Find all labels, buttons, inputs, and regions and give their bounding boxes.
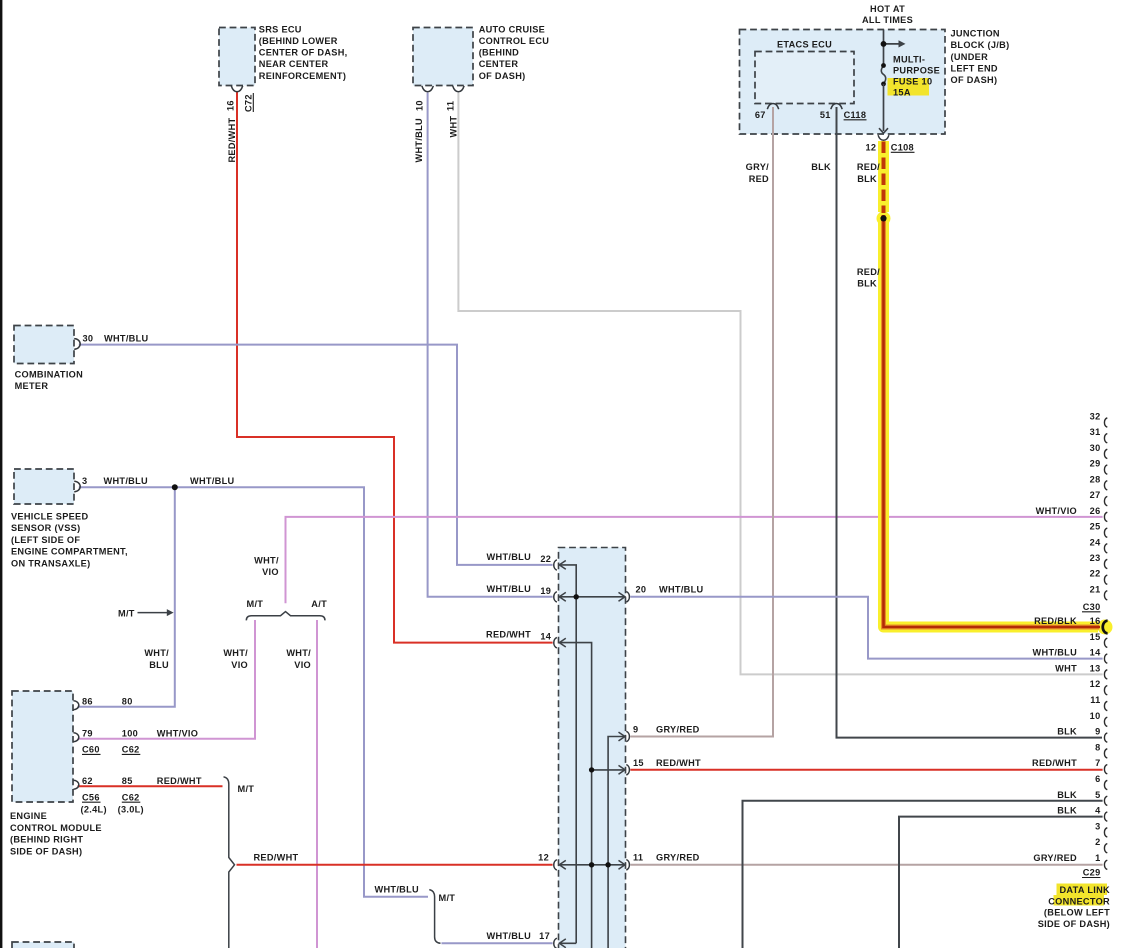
VSS box border — [14, 469, 74, 504]
wire WHT/BLU M/T segment to center connector pin17 — [442, 942, 553, 944]
svg-text:WHT/: WHT/ — [286, 648, 311, 658]
svg-text:AUTO CRUISE: AUTO CRUISE — [479, 24, 545, 34]
svg-text:14: 14 — [540, 632, 551, 642]
wire BLK from bottom to C29 pin4 — [899, 817, 1103, 948]
wire WHT/BLU branch to ECM pin86 — [78, 487, 175, 707]
svg-text:VIO: VIO — [262, 567, 279, 577]
svg-text:RED/WHT: RED/WHT — [656, 758, 701, 768]
svg-text:WHT/BLU: WHT/BLU — [104, 476, 149, 486]
svg-text:9: 9 — [1095, 727, 1100, 737]
svg-text:RED/WHT: RED/WHT — [254, 853, 299, 863]
wire RED/WHT ECM pin62 to M/T brace — [78, 785, 223, 787]
svg-text:M/T: M/T — [118, 608, 135, 618]
arrow into pin20 — [619, 592, 626, 601]
svg-text:26: 26 — [1090, 506, 1101, 516]
ECM box border — [12, 691, 73, 802]
svg-text:WHT/: WHT/ — [223, 648, 248, 658]
svg-text:M/T: M/T — [439, 893, 456, 903]
svg-text:SIDE OF DASH): SIDE OF DASH) — [10, 846, 82, 856]
svg-text:BLU: BLU — [149, 660, 169, 670]
arrow into pin15 — [619, 765, 626, 774]
socket C29 pin4 — [1104, 812, 1107, 821]
svg-text:(BEHIND: (BEHIND — [479, 48, 519, 58]
svg-text:27: 27 — [1090, 490, 1101, 500]
svg-text:5: 5 — [1095, 790, 1100, 800]
arrows at center connector pins — [559, 561, 625, 948]
svg-text:85: 85 — [122, 776, 133, 786]
combination meter box border — [14, 326, 74, 364]
junction block J/B fill — [740, 30, 946, 135]
socket C29 pin15 — [1104, 638, 1107, 647]
svg-text:FUSE 10: FUSE 10 — [893, 76, 932, 86]
socket C108 pin12 — [878, 135, 889, 140]
svg-text:C30: C30 — [1083, 602, 1101, 612]
svg-text:HOT AT: HOT AT — [870, 4, 905, 14]
svg-text:(BEHIND LOWER: (BEHIND LOWER — [259, 36, 338, 46]
svg-text:MULTI-: MULTI- — [893, 54, 925, 64]
wire WHT/VIO ECM pin79 to M/T brace — [78, 620, 256, 739]
svg-text:10: 10 — [1090, 711, 1101, 721]
socket center connector pin15 — [626, 765, 629, 775]
svg-text:11: 11 — [633, 853, 643, 863]
arrow into pin19 — [559, 592, 566, 601]
svg-text:WHT/VIO: WHT/VIO — [1036, 506, 1077, 516]
socket C29 pin16 bold — [1103, 621, 1108, 634]
internal wire pin14 down to pin12 line — [560, 643, 592, 865]
socket C30 pin29 — [1104, 465, 1107, 474]
ETACS ECU inner box fill — [755, 52, 854, 104]
svg-text:OF DASH): OF DASH) — [479, 71, 526, 81]
socket C29 pin12 — [1104, 686, 1107, 695]
svg-text:WHT/BLU: WHT/BLU — [1033, 648, 1078, 658]
svg-text:COMBINATION: COMBINATION — [15, 370, 84, 380]
highlight ring at junction dot — [877, 211, 891, 225]
svg-text:SIDE OF DASH): SIDE OF DASH) — [1038, 919, 1110, 929]
svg-text:CENTER: CENTER — [479, 59, 519, 69]
junction dot pin9/11 net — [605, 862, 610, 867]
socket cruise pin10 — [422, 86, 433, 92]
svg-text:6: 6 — [1095, 774, 1100, 784]
svg-text:24: 24 — [1090, 537, 1101, 547]
socket C29 pin11 — [1104, 701, 1107, 710]
socket center connector pin22 — [554, 560, 557, 570]
svg-text:CONTROL ECU: CONTROL ECU — [479, 36, 550, 46]
socket C30 pin27 — [1104, 496, 1107, 505]
svg-text:SRS ECU: SRS ECU — [259, 24, 302, 34]
center in-line connector box border — [559, 548, 626, 948]
arrow into pin9 — [619, 732, 626, 741]
svg-text:REINFORCEMENT): REINFORCEMENT) — [259, 71, 346, 81]
junction dot pin19/22 net — [574, 594, 579, 599]
svg-text:80: 80 — [122, 696, 133, 706]
svg-text:WHT/BLU: WHT/BLU — [487, 931, 532, 941]
fuse 10 element — [881, 66, 885, 84]
svg-text:13: 13 — [1090, 663, 1101, 673]
svg-text:29: 29 — [1090, 459, 1101, 469]
svg-text:BLK: BLK — [1057, 727, 1077, 737]
socket center connector pin14 — [554, 638, 557, 648]
svg-text:A/T: A/T — [311, 599, 327, 609]
svg-text:RED/WHT: RED/WHT — [486, 630, 531, 640]
svg-text:3: 3 — [1095, 821, 1100, 831]
RED/BLK solid wire core — [884, 215, 1101, 627]
arrow into pin17 — [559, 939, 566, 948]
svg-text:4: 4 — [1095, 806, 1101, 816]
RED/BLK dashed wire segment C108 down — [882, 142, 886, 214]
svg-text:C56: C56 — [82, 792, 100, 802]
svg-text:WHT/BLU: WHT/BLU — [659, 585, 704, 595]
svg-text:ENGINE COMPARTMENT,: ENGINE COMPARTMENT, — [11, 547, 128, 557]
svg-text:ALL TIMES: ALL TIMES — [862, 15, 913, 25]
svg-text:RED/WHT: RED/WHT — [227, 117, 237, 162]
svg-text:C62: C62 — [122, 745, 140, 755]
svg-text:WHT: WHT — [1055, 663, 1077, 673]
svg-text:C60: C60 — [82, 745, 100, 755]
socket C30 pin22 — [1104, 575, 1107, 584]
svg-text:12: 12 — [538, 853, 549, 863]
svg-text:WHT/VIO: WHT/VIO — [157, 728, 198, 738]
wire GRY/RED ETACS pin67 to center connector pin9 — [630, 107, 773, 737]
internal wire pin12 to pin11 — [560, 864, 625, 866]
svg-text:C118: C118 — [844, 110, 867, 120]
socket C29 pin2 — [1104, 844, 1107, 853]
svg-text:8: 8 — [1095, 742, 1100, 752]
wire RED/WHT M/T segment to center connector pin12 — [237, 864, 553, 866]
wire GRY/RED center connector pin11 to C29 pin1 — [630, 864, 1102, 866]
highlight DATA LINK — [1057, 884, 1108, 896]
svg-text:15A: 15A — [893, 87, 911, 97]
socket VSS pin3 — [74, 481, 80, 492]
svg-text:28: 28 — [1090, 474, 1101, 484]
svg-text:86: 86 — [82, 696, 93, 706]
svg-text:23: 23 — [1090, 553, 1101, 563]
svg-text:VEHICLE SPEED: VEHICLE SPEED — [11, 512, 88, 522]
svg-text:16: 16 — [1090, 616, 1101, 626]
AUTO CRUISE ECU box fill — [413, 28, 473, 86]
socket center connector pin9 — [626, 731, 629, 741]
svg-text:67: 67 — [755, 110, 766, 120]
highlight band solid segment — [884, 218, 1099, 627]
svg-text:M/T: M/T — [247, 599, 264, 609]
wire WHT/BLU VSS pin3 junction run — [79, 487, 428, 897]
highlight blob at C29 pin16 — [1098, 620, 1113, 635]
svg-text:WHT/BLU: WHT/BLU — [487, 552, 532, 562]
junction dot top — [881, 41, 887, 47]
socket C30 pin26 — [1104, 512, 1107, 521]
svg-text:ETACS ECU: ETACS ECU — [777, 40, 832, 50]
svg-text:WHT/BLU: WHT/BLU — [190, 476, 235, 486]
svg-text:51: 51 — [820, 110, 831, 120]
svg-text:WHT/BLU: WHT/BLU — [414, 118, 424, 163]
svg-text:GRY/RED: GRY/RED — [1033, 853, 1077, 863]
svg-text:BLK: BLK — [857, 278, 877, 288]
VSS box fill — [14, 469, 74, 504]
svg-text:PURPOSE: PURPOSE — [893, 65, 940, 75]
junction block J/B border — [740, 30, 946, 135]
svg-text:(3.0L): (3.0L) — [118, 804, 144, 814]
socket C30 pin30 — [1104, 449, 1107, 458]
socket center connector pin20 — [626, 592, 629, 602]
socket center connector pin17 — [554, 938, 557, 948]
socket center connector pin11 — [626, 860, 629, 870]
svg-text:BLK: BLK — [1057, 790, 1077, 800]
socket C30 pin32 — [1104, 418, 1107, 427]
svg-text:WHT/: WHT/ — [254, 555, 279, 565]
ETACS ECU inner box border — [755, 52, 854, 104]
svg-text:BLK: BLK — [811, 162, 831, 172]
svg-text:WHT/: WHT/ — [144, 648, 169, 658]
svg-text:12: 12 — [1090, 679, 1101, 689]
svg-text:79: 79 — [82, 728, 93, 738]
svg-text:9: 9 — [633, 724, 638, 734]
svg-text:7: 7 — [1095, 758, 1100, 768]
svg-text:VIO: VIO — [231, 660, 248, 670]
svg-text:25: 25 — [1090, 522, 1101, 532]
arrow down at junction block exit — [879, 128, 888, 133]
bottom-left box border — [12, 942, 74, 948]
socket C30 pin24 — [1104, 544, 1107, 553]
svg-text:C62: C62 — [122, 792, 140, 802]
svg-text:(BELOW LEFT: (BELOW LEFT — [1044, 908, 1110, 918]
socket C29 pin1 — [1104, 860, 1107, 869]
socket C29 pin3 — [1104, 828, 1107, 837]
svg-text:20: 20 — [636, 585, 647, 595]
wire WHT cruise pin11 to C29 pin13 — [458, 93, 1102, 675]
arrow into pin14 — [559, 638, 566, 647]
socket ECM pin86 — [73, 701, 78, 710]
svg-text:NEAR CENTER: NEAR CENTER — [259, 59, 329, 69]
wire BLK from bottom to C29 pin5 — [743, 801, 1103, 948]
socket C29 pin14 — [1104, 654, 1107, 663]
socket C30 pin25 — [1104, 528, 1107, 537]
highlight band dashed segment — [878, 141, 889, 212]
svg-text:BLOCK (J/B): BLOCK (J/B) — [951, 40, 1010, 50]
svg-text:GRY/: GRY/ — [746, 162, 769, 172]
svg-text:16: 16 — [226, 100, 236, 111]
internal verticals below pin17 — [591, 865, 593, 948]
svg-text:C108: C108 — [891, 143, 914, 153]
svg-text:RED/WHT: RED/WHT — [1032, 758, 1077, 768]
svg-text:30: 30 — [1090, 443, 1101, 453]
svg-text:10: 10 — [415, 100, 425, 111]
AUTO CRUISE ECU box border — [413, 28, 473, 86]
svg-text:M/T: M/T — [238, 784, 255, 794]
svg-text:100: 100 — [122, 728, 138, 738]
socket C29 pin5 — [1104, 796, 1107, 805]
svg-text:BLK: BLK — [1057, 806, 1077, 816]
svg-text:VIO: VIO — [294, 660, 311, 670]
internal wire pin19 to pin20 — [560, 596, 625, 598]
SRS ECU box fill — [219, 28, 255, 86]
socket C30 pin23 — [1104, 559, 1107, 568]
socket C29 pin10 — [1104, 717, 1107, 726]
wire BLK ETACS pin51 to C29 pin9 — [837, 107, 1103, 738]
highlight FUSE 10 — [888, 78, 930, 88]
svg-text:11: 11 — [1090, 695, 1100, 705]
bottom-left box fill — [12, 942, 74, 948]
junction dot pin14/15 net — [589, 767, 594, 772]
wire WHT/VIO stub above brace to C30 pin26 — [286, 517, 1103, 603]
socket center connector pin19 — [554, 592, 557, 602]
socket ETACS pin67 — [767, 104, 778, 110]
highlight CONNECTOR — [1054, 895, 1105, 906]
svg-text:2: 2 — [1095, 837, 1100, 847]
branch arrow right at top junction — [884, 43, 901, 45]
arrow into pin22 — [559, 561, 566, 570]
socket center connector pin12 — [554, 860, 557, 870]
svg-text:RED/BLK: RED/BLK — [1034, 616, 1077, 626]
svg-text:WHT/BLU: WHT/BLU — [104, 334, 149, 344]
socket C29 pin13 — [1104, 670, 1107, 679]
wire RED/WHT SRS pin16 to center connector pin14 — [237, 91, 553, 643]
brace M/T at ECM pin62 — [224, 777, 235, 948]
socket C30 pin31 — [1104, 434, 1107, 443]
svg-text:DATA LINK: DATA LINK — [1060, 885, 1111, 895]
RED/BLK solid wire orange sheath — [884, 215, 1100, 627]
junction dot on RED/BLK — [880, 215, 886, 221]
svg-text:JUNCTION: JUNCTION — [951, 28, 1000, 38]
highlight 15A — [888, 86, 930, 96]
svg-text:CENTER OF DASH,: CENTER OF DASH, — [259, 48, 348, 58]
M/T arrow at WHT/BLU vertical — [138, 612, 168, 614]
svg-text:RED/: RED/ — [857, 267, 880, 277]
svg-text:METER: METER — [15, 381, 49, 391]
socket C30 pin28 — [1104, 481, 1107, 490]
svg-text:(LEFT SIDE OF: (LEFT SIDE OF — [11, 535, 80, 545]
svg-text:C29: C29 — [1083, 868, 1101, 878]
svg-text:15: 15 — [633, 758, 644, 768]
svg-text:(UNDER: (UNDER — [951, 52, 989, 62]
svg-text:CONNECTOR: CONNECTOR — [1048, 896, 1110, 906]
center in-line connector box fill — [559, 548, 626, 948]
socket C29 pin9 — [1104, 733, 1107, 742]
combination meter box fill — [14, 326, 74, 364]
wire WHT/BLU cruise pin10 to center connector pin19 — [428, 93, 553, 597]
junction dot pin14/12 net — [589, 862, 594, 867]
socket C29 pin7 — [1104, 765, 1107, 774]
svg-text:BLK: BLK — [857, 174, 877, 184]
svg-text:(2.4L): (2.4L) — [81, 804, 107, 814]
brace M/T A/T split — [246, 612, 325, 621]
wire fuse to C108 — [883, 84, 885, 131]
svg-text:12: 12 — [865, 143, 876, 153]
svg-text:WHT/BLU: WHT/BLU — [487, 584, 532, 594]
svg-text:22: 22 — [540, 554, 551, 564]
internal wire pin9 down — [608, 737, 625, 865]
svg-text:RED/: RED/ — [857, 162, 880, 172]
socket cruise pin11 — [453, 86, 464, 92]
svg-text:GRY/RED: GRY/RED — [656, 853, 700, 863]
SRS ECU box border — [219, 28, 255, 86]
svg-text:17: 17 — [539, 931, 550, 941]
svg-text:ENGINE: ENGINE — [10, 811, 47, 821]
socket SRS pin16 — [231, 86, 242, 92]
svg-text:LEFT END: LEFT END — [951, 64, 998, 74]
socket C30 pin21 — [1104, 591, 1107, 600]
svg-text:11: 11 — [446, 101, 456, 111]
svg-text:1: 1 — [1095, 853, 1100, 863]
svg-text:21: 21 — [1090, 584, 1101, 594]
svg-text:(BEHIND RIGHT: (BEHIND RIGHT — [10, 835, 83, 845]
page border left edge — [0, 0, 2, 948]
svg-text:14: 14 — [1090, 648, 1101, 658]
junction dot VSS wire — [172, 484, 178, 490]
svg-text:32: 32 — [1090, 412, 1101, 422]
svg-text:30: 30 — [83, 334, 94, 344]
socket C29 pin8 — [1104, 749, 1107, 758]
socket C29 pin6 — [1104, 780, 1107, 789]
svg-text:15: 15 — [1090, 632, 1101, 642]
svg-text:C72: C72 — [244, 94, 254, 112]
svg-text:22: 22 — [1090, 569, 1101, 579]
wire WHT/BLU center connector pin20 to C29 pin14 — [630, 597, 1102, 659]
socket ECM pin62 — [73, 780, 78, 789]
socket ETACS pin51 — [831, 104, 842, 110]
arrow into pin12 — [559, 860, 566, 869]
internal wire pin22 down — [560, 565, 577, 943]
wire RED/WHT center connector pin15 to C29 pin7 — [630, 769, 1102, 771]
svg-text:RED: RED — [749, 174, 769, 184]
ECM box fill — [12, 691, 73, 802]
svg-text:SENSOR (VSS): SENSOR (VSS) — [11, 523, 80, 533]
wire WHT/VIO A/T branch — [316, 620, 318, 948]
socket ECM pin79 — [73, 733, 78, 742]
svg-text:3: 3 — [82, 476, 87, 486]
brace M/T near center pin17 — [429, 890, 440, 944]
socket combination meter pin30 — [74, 339, 80, 350]
svg-text:31: 31 — [1090, 427, 1101, 437]
internal wire pin15 stub — [592, 769, 625, 771]
svg-text:WHT/BLU: WHT/BLU — [375, 885, 420, 895]
svg-text:CONTROL MODULE: CONTROL MODULE — [10, 823, 102, 833]
internal wire pin17 stub — [560, 942, 577, 944]
svg-text:OF DASH): OF DASH) — [951, 75, 998, 85]
arrow into pin11 — [619, 860, 626, 869]
svg-text:GRY/RED: GRY/RED — [656, 724, 700, 734]
svg-text:RED/WHT: RED/WHT — [157, 776, 202, 786]
svg-text:19: 19 — [540, 586, 551, 596]
svg-text:ON TRANSAXLE): ON TRANSAXLE) — [11, 558, 90, 568]
svg-text:WHT: WHT — [449, 116, 459, 138]
svg-text:62: 62 — [82, 776, 93, 786]
wire WHT/BLU combination meter pin30 to center connector pin22 — [79, 345, 553, 565]
wire feed from HOT AT ALL TIMES — [883, 30, 885, 66]
